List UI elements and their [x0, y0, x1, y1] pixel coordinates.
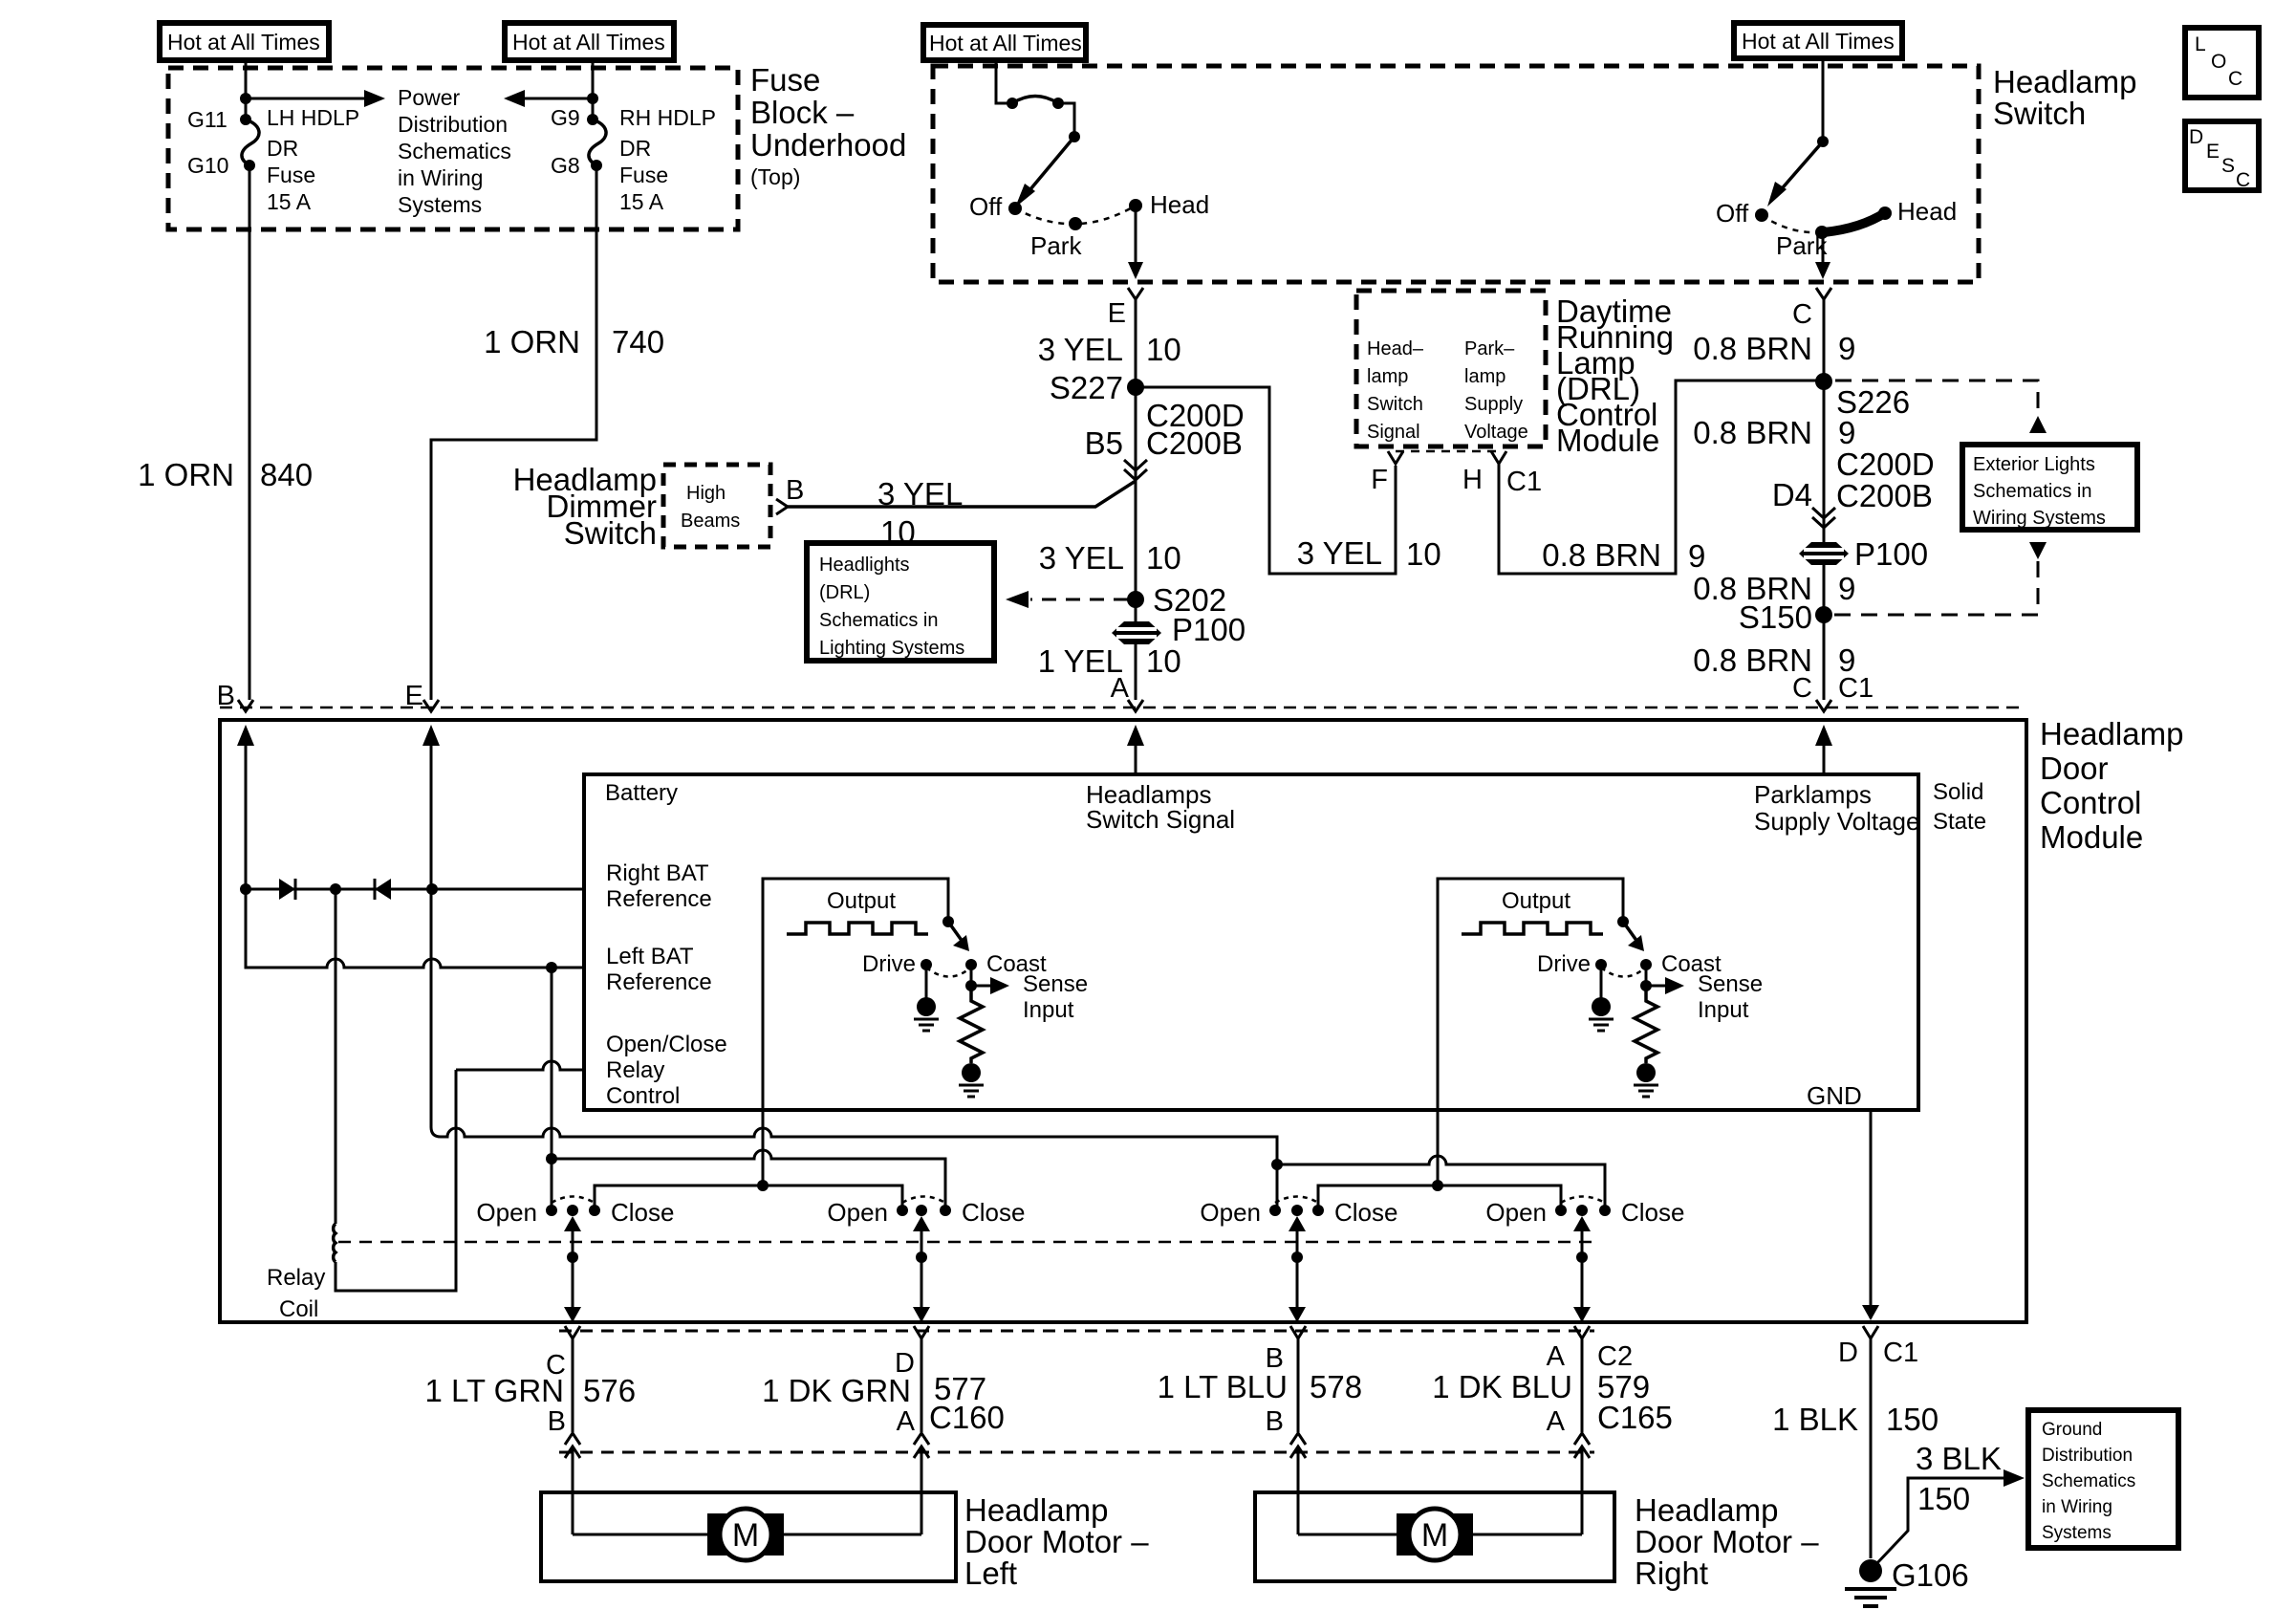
pass-through grommet P100 right — [1799, 542, 1849, 565]
svg-text:Distribution: Distribution — [398, 112, 508, 137]
svg-text:Schematics in: Schematics in — [819, 610, 939, 631]
left switch Head terminal — [1129, 199, 1142, 212]
svg-text:Relay: Relay — [267, 1265, 325, 1291]
svg-text:A: A — [1547, 1341, 1566, 1372]
wire 1 ORN 840 from fuse G10 down to module connector B — [249, 165, 251, 700]
svg-text:Park–: Park– — [1464, 338, 1515, 359]
svg-text:Supply Voltage: Supply Voltage — [1754, 807, 1919, 836]
svg-text:10: 10 — [1406, 536, 1441, 572]
label "0.8 BRN | 9" fourth — [1693, 642, 1855, 678]
diode row wire — [246, 888, 584, 891]
diode D2 — [375, 879, 391, 900]
label High Beams — [681, 483, 740, 532]
svg-text:B: B — [548, 1406, 566, 1437]
splice S150 — [1815, 606, 1832, 623]
bridge1 wire sw1-close to sw2-open — [595, 1186, 902, 1210]
label Head-lamp Switch Signal — [1367, 338, 1424, 443]
output2 wire from driver to bridge2 — [1437, 1110, 1440, 1186]
svg-text:Sense: Sense — [1023, 971, 1088, 997]
motor connector dashed line top — [559, 1330, 1594, 1333]
svg-text:Reference: Reference — [606, 886, 712, 912]
svg-text:0.8 BRN: 0.8 BRN — [1693, 331, 1812, 366]
relay contact set 4 — [1555, 1197, 1611, 1217]
label Open/Close Relay Control — [606, 1032, 727, 1109]
label "LH HDLP DR Fuse 15 A" — [267, 105, 359, 214]
wire relay control row — [456, 1061, 584, 1070]
driver2 drive contact and ground — [1589, 959, 1614, 1031]
svg-text:Supply: Supply — [1464, 394, 1523, 415]
left switch feed wire from Hot box — [996, 60, 1012, 103]
svg-text:Input: Input — [1023, 997, 1074, 1023]
svg-text:Headlamp: Headlamp — [1635, 1492, 1778, 1528]
svg-text:Distribution: Distribution — [2042, 1446, 2133, 1466]
junction dot diode row right — [426, 883, 438, 895]
svg-text:9: 9 — [1838, 331, 1855, 366]
pivot arrow wire sw1 — [564, 1216, 581, 1322]
svg-text:Solid: Solid — [1933, 779, 1983, 805]
label Headlamps Switch Signal — [1086, 780, 1235, 834]
svg-text:Right: Right — [1635, 1556, 1708, 1591]
svg-text:10: 10 — [1146, 643, 1181, 679]
wire 1 ORN 740 from fuse G8 down then left to connector E — [431, 165, 596, 700]
wire H to S226 — [1499, 381, 1824, 574]
left switch Park terminal — [1069, 217, 1082, 230]
svg-text:G8: G8 — [551, 153, 580, 178]
ground distribution reference box — [2028, 1410, 2178, 1548]
label Solid State — [1933, 779, 1986, 835]
fuse LH HDLP DR 15A — [240, 114, 259, 171]
svg-text:Open: Open — [827, 1198, 888, 1227]
svg-text:Block –: Block – — [750, 95, 855, 130]
svg-text:Output: Output — [827, 888, 896, 914]
half connector chevrons B motor — [1290, 1433, 1306, 1534]
svg-text:B: B — [1266, 1406, 1284, 1437]
junction dot diode row left — [240, 883, 251, 895]
driver2 dashed wiper arc — [1601, 968, 1643, 977]
connector fork C interface — [1816, 700, 1831, 711]
half connector chevrons A motor — [1574, 1433, 1590, 1534]
right switch Head terminal — [1878, 207, 1892, 220]
svg-text:B: B — [217, 681, 235, 711]
right motor wiring — [1298, 1534, 1582, 1536]
svg-text:C: C — [1792, 299, 1812, 330]
svg-text:10: 10 — [1146, 332, 1181, 367]
svg-text:L: L — [2195, 33, 2206, 55]
junction dot right feed — [587, 93, 598, 104]
half connector chevrons C motor — [565, 1433, 580, 1534]
left switch arc between contacts — [1012, 97, 1058, 104]
LOC box — [2185, 28, 2259, 98]
svg-text:P100: P100 — [1854, 536, 1928, 572]
svg-text:Schematics in: Schematics in — [1973, 481, 2092, 502]
driver1 resistor ground — [959, 1063, 984, 1097]
svg-text:C: C — [2228, 68, 2242, 90]
svg-text:Hot at All Times: Hot at All Times — [929, 31, 1082, 55]
label Left BAT Reference — [606, 944, 712, 995]
driver1 drive contact and ground — [914, 959, 939, 1031]
svg-text:Door Motor –: Door Motor – — [964, 1524, 1149, 1559]
label "1 ORN | 740" — [484, 324, 664, 359]
relay contact set 3 — [1269, 1197, 1324, 1217]
svg-text:Relay: Relay — [606, 1057, 664, 1083]
svg-text:Switch: Switch — [1367, 394, 1423, 415]
wire row2 from sw1-open riser to sw2 close — [552, 968, 945, 1210]
svg-text:Head: Head — [1897, 197, 1957, 226]
svg-text:Drive: Drive — [862, 951, 916, 977]
svg-text:(Top): (Top) — [750, 164, 800, 189]
svg-text:Ground: Ground — [2042, 1420, 2102, 1440]
connector fork H — [1491, 451, 1506, 464]
svg-text:15 A: 15 A — [267, 189, 312, 214]
driver1 coast contact — [965, 959, 977, 970]
driver2 sense tap — [1640, 965, 1684, 994]
svg-text:Control: Control — [606, 1083, 680, 1109]
label C200D C200B right — [1836, 446, 1935, 513]
svg-text:Wiring Systems: Wiring Systems — [1973, 508, 2106, 529]
svg-text:DR: DR — [267, 136, 298, 161]
svg-text:C165: C165 — [1597, 1400, 1673, 1435]
junction dot row2 start — [546, 1153, 557, 1164]
right switch dashed arc Off to Park — [1762, 215, 1822, 232]
dashed arrow from S202 to headlights box — [1006, 591, 1128, 608]
driver2 wiper arrow — [1623, 922, 1644, 951]
svg-text:G106: G106 — [1892, 1557, 1969, 1593]
svg-text:RH HDLP: RH HDLP — [619, 105, 716, 130]
driver1 square wave — [787, 923, 928, 934]
svg-text:Drive: Drive — [1537, 951, 1591, 977]
svg-text:Headlamp: Headlamp — [1993, 64, 2136, 99]
svg-text:Reference: Reference — [606, 969, 712, 995]
right switch pivot dot — [1817, 136, 1829, 147]
wire 3 BLK 150 branch to ground distribution — [1874, 1469, 2025, 1566]
DRL control module dashed box — [1356, 291, 1546, 446]
connector fork D motor — [914, 1326, 929, 1432]
label box "Hot at All Times" left — [160, 23, 329, 60]
label "0.8 BRN | 9" at H — [1542, 537, 1705, 574]
driver1 resistor — [960, 986, 983, 1063]
right motor box — [1255, 1492, 1614, 1581]
svg-text:A: A — [1111, 673, 1130, 704]
driver2 resistor — [1635, 986, 1657, 1063]
svg-text:LH HDLP: LH HDLP — [267, 105, 359, 130]
svg-text:Parklamps: Parklamps — [1754, 780, 1872, 809]
right switch Park terminal — [1815, 226, 1829, 239]
svg-text:in Wiring: in Wiring — [398, 165, 483, 190]
label Park-lamp Supply Voltage — [1464, 338, 1528, 443]
svg-text:DR: DR — [619, 136, 651, 161]
svg-text:578: 578 — [1310, 1369, 1362, 1404]
label "Headlights (DRL) Schematics in Lighting Systems" — [819, 555, 964, 659]
connector fork E at switch output — [1128, 288, 1143, 700]
svg-text:Lighting Systems: Lighting Systems — [819, 638, 964, 659]
svg-text:Beams: Beams — [681, 511, 740, 532]
svg-text:Off: Off — [969, 192, 1003, 221]
wire branch S227 to DRL F — [1136, 387, 1396, 574]
headlamp switch dashed box — [933, 66, 1979, 282]
svg-text:Door Motor –: Door Motor – — [1635, 1524, 1819, 1559]
svg-text:B: B — [786, 475, 804, 506]
svg-text:Control: Control — [2040, 785, 2141, 820]
svg-text:D: D — [1838, 1338, 1858, 1368]
pivot arrow wire sw4 — [1573, 1216, 1591, 1322]
junction dot row2b start — [1271, 1159, 1283, 1170]
ground G106 — [1845, 1559, 1896, 1606]
svg-text:1 ORN: 1 ORN — [484, 324, 580, 359]
diode D1 — [279, 879, 295, 900]
svg-text:Coil: Coil — [279, 1296, 318, 1322]
svg-text:3 YEL: 3 YEL — [1038, 332, 1123, 367]
svg-text:C1: C1 — [1883, 1338, 1918, 1368]
svg-text:3 YEL: 3 YEL — [1297, 535, 1382, 571]
svg-text:C160: C160 — [929, 1400, 1005, 1435]
in-line connector chevrons C200 left — [1124, 460, 1147, 480]
label "Power Distribution Schematics in Wiring Systems" — [398, 85, 511, 217]
right switch closed contact thick arc Park to Head — [1824, 212, 1886, 232]
label "1 YEL | 10" — [1038, 643, 1181, 679]
label Relay Coil — [267, 1265, 325, 1322]
svg-text:1 DK BLU: 1 DK BLU — [1432, 1369, 1572, 1404]
label box "Hot at All Times" fourth — [1734, 23, 1902, 58]
output1 wire from driver to bridge1 — [762, 1110, 765, 1186]
label "3 YEL | 10" at F — [1297, 535, 1441, 572]
svg-text:Open: Open — [1200, 1198, 1261, 1227]
svg-text:Sense: Sense — [1698, 971, 1763, 997]
driver1 wiper arrow — [948, 922, 969, 951]
wire Park down to box edge with arrow — [1815, 232, 1830, 279]
svg-text:0.8 BRN: 0.8 BRN — [1693, 415, 1812, 450]
svg-text:576: 576 — [583, 1373, 636, 1408]
svg-text:Exterior Lights: Exterior Lights — [1973, 454, 2095, 475]
connector fork C motor — [565, 1326, 580, 1432]
svg-text:Park: Park — [1030, 231, 1082, 260]
svg-text:Close: Close — [611, 1198, 674, 1227]
svg-text:Output: Output — [1502, 888, 1570, 914]
label box "Hot at All Times" second — [505, 23, 674, 60]
svg-text:(DRL): (DRL) — [819, 582, 870, 603]
label "1 DK BLU | 579" — [1432, 1369, 1650, 1404]
relay contact set 1 — [546, 1197, 600, 1217]
label "1 LT GRN | 576" — [425, 1373, 637, 1408]
svg-text:1 LT BLU: 1 LT BLU — [1158, 1369, 1288, 1404]
svg-text:1 BLK: 1 BLK — [1772, 1402, 1858, 1437]
svg-text:Park: Park — [1776, 231, 1828, 260]
connector fork F — [1388, 451, 1403, 464]
svg-text:Off: Off — [1716, 199, 1749, 228]
splice S226 — [1815, 373, 1832, 390]
svg-text:M: M — [732, 1517, 759, 1554]
svg-text:Open: Open — [1485, 1198, 1547, 1227]
dashed reference from exterior lights box to S150 — [1832, 561, 2038, 615]
solid state inner box — [584, 774, 1918, 1110]
connector fork B at dimmer output — [776, 499, 788, 514]
driver2 output frame — [1438, 879, 1623, 1110]
connector fork B motor right — [1290, 1326, 1306, 1432]
svg-text:Head–: Head– — [1367, 338, 1424, 359]
svg-text:1 LT GRN: 1 LT GRN — [425, 1373, 565, 1408]
svg-text:O: O — [2211, 51, 2226, 73]
interface dashed line above module — [220, 707, 2025, 709]
svg-text:G10: G10 — [187, 153, 228, 178]
label "0.8 BRN | 9" second — [1693, 415, 1855, 450]
label Sense Input driver1 — [1023, 971, 1088, 1023]
arrowhead down from exterior lights — [2029, 542, 2047, 559]
label "Headlamp Door Motor - Right" — [1635, 1492, 1819, 1591]
svg-text:E: E — [2206, 141, 2220, 163]
connector fork A motor right — [1574, 1326, 1590, 1432]
arrow to Power Distribution (left pointing) — [504, 90, 593, 107]
left switch contact dot 1 — [1007, 98, 1018, 109]
fuse RH HDLP DR 15A — [587, 114, 606, 171]
svg-text:C200B: C200B — [1836, 478, 1933, 513]
splice S227 — [1127, 379, 1144, 396]
svg-text:D: D — [2189, 126, 2203, 148]
svg-text:Switch: Switch — [1993, 96, 2086, 131]
label "1 LT BLU | 578" — [1158, 1369, 1362, 1404]
svg-text:A: A — [1547, 1406, 1566, 1437]
driver2 square wave — [1462, 923, 1603, 934]
left switch dashed position arc — [1015, 206, 1136, 224]
label "Headlamp Dimmer Switch" — [513, 462, 657, 551]
wire E into module with arrow — [422, 725, 440, 889]
label "Headlamp Door Motor - Left" — [964, 1492, 1149, 1591]
connector fork C at right switch output — [1816, 288, 1831, 700]
label box "Hot at All Times" third — [923, 25, 1086, 60]
svg-text:Voltage: Voltage — [1464, 422, 1528, 443]
svg-text:150: 150 — [1917, 1481, 1970, 1516]
svg-text:Input: Input — [1698, 997, 1749, 1023]
label "1 DK GRN | 577" — [762, 1371, 986, 1408]
svg-text:1 ORN: 1 ORN — [138, 457, 234, 492]
svg-text:Fuse: Fuse — [619, 163, 668, 187]
svg-text:Close: Close — [1621, 1198, 1684, 1227]
svg-text:C200D: C200D — [1836, 446, 1935, 482]
svg-text:Left BAT: Left BAT — [606, 944, 694, 969]
svg-text:Close: Close — [962, 1198, 1025, 1227]
svg-text:Close: Close — [1334, 1198, 1397, 1227]
junction dot bridge1 — [757, 1180, 769, 1191]
svg-text:in Wiring: in Wiring — [2042, 1497, 2112, 1517]
label "Headlamp Switch" — [1993, 64, 2136, 131]
motor connector dashed line bottom — [559, 1451, 1594, 1454]
svg-text:Underhood: Underhood — [750, 127, 906, 163]
svg-text:S150: S150 — [1739, 599, 1812, 635]
svg-text:Fuse: Fuse — [267, 163, 315, 187]
svg-text:C1: C1 — [1838, 673, 1874, 704]
svg-text:840: 840 — [260, 457, 313, 492]
svg-text:Open: Open — [476, 1198, 537, 1227]
bridge2 wire sw3-close to sw4-open — [1318, 1186, 1561, 1210]
left switch wiper arrow to Off — [1015, 137, 1074, 207]
junction dot bridge2 — [1432, 1180, 1443, 1191]
label "Exterior Lights Schematics in Wiring Systems" — [1973, 454, 2106, 529]
label "1 ORN | 840" — [138, 457, 313, 492]
svg-text:150: 150 — [1886, 1402, 1939, 1437]
svg-text:E: E — [1108, 298, 1126, 329]
driver1 switch dot — [942, 916, 954, 927]
svg-text:15 A: 15 A — [619, 189, 664, 214]
svg-text:Headlamp: Headlamp — [964, 1492, 1108, 1528]
svg-text:GND: GND — [1807, 1081, 1862, 1110]
svg-text:Switch: Switch — [564, 515, 657, 551]
dashed link between F and H forks — [1396, 450, 1499, 453]
relay contact set 2 — [897, 1197, 951, 1217]
svg-text:H: H — [1462, 465, 1483, 495]
label "3 YEL | 10" lower riser — [1039, 540, 1181, 576]
svg-text:Systems: Systems — [2042, 1523, 2112, 1543]
left switch pivot dot — [1069, 131, 1080, 142]
svg-text:Headlights: Headlights — [819, 555, 910, 576]
svg-text:B5: B5 — [1085, 425, 1123, 461]
label "Daytime Running Lamp (DRL) Control Module" — [1556, 294, 1674, 458]
junction dot left BAT row — [546, 962, 557, 973]
svg-text:lamp: lamp — [1464, 366, 1505, 387]
svg-text:C1: C1 — [1506, 467, 1542, 497]
fuse block underhood dashed box — [168, 68, 738, 229]
driver2 resistor ground — [1634, 1063, 1658, 1097]
svg-text:Fuse: Fuse — [750, 62, 820, 98]
label "3 YEL | 10" upper — [1038, 332, 1181, 367]
in-line connector chevrons C200 right — [1812, 508, 1835, 528]
svg-text:Hot at All Times: Hot at All Times — [167, 30, 320, 54]
right switch wiper arrow to Off — [1767, 141, 1823, 207]
wire Head down to box edge with arrow — [1128, 206, 1143, 279]
svg-text:Head: Head — [1150, 190, 1209, 219]
svg-text:C200B: C200B — [1146, 425, 1243, 461]
junction dot diode row mid — [330, 883, 341, 895]
svg-text:Left: Left — [964, 1556, 1017, 1591]
headlamp door control module box — [220, 720, 2026, 1322]
dashed reference from S226 to exterior lights box — [1835, 381, 2038, 414]
driver1 dashed wiper arc — [926, 968, 968, 977]
connector fork B interface — [238, 700, 253, 711]
svg-text:E: E — [405, 681, 423, 711]
svg-text:0.8 BRN: 0.8 BRN — [1542, 537, 1661, 573]
svg-text:Switch Signal: Switch Signal — [1086, 805, 1235, 834]
svg-text:G9: G9 — [551, 105, 580, 130]
svg-text:lamp: lamp — [1367, 366, 1408, 387]
wire from second Hot box to fuse G9 — [592, 60, 595, 120]
left switch contact dot 2 — [1052, 98, 1064, 109]
wire C into module with arrow — [1815, 725, 1832, 774]
svg-text:9: 9 — [1688, 538, 1705, 574]
svg-text:M: M — [1421, 1517, 1448, 1554]
svg-text:Signal: Signal — [1367, 422, 1420, 443]
right motor symbol — [1397, 1509, 1473, 1560]
wire row2b to sw4 close — [1277, 1156, 1605, 1210]
svg-text:Module: Module — [2040, 819, 2143, 855]
driver1 sense tap — [965, 965, 1009, 994]
svg-text:Door: Door — [2040, 751, 2109, 786]
svg-text:D4: D4 — [1772, 477, 1812, 512]
right switch Off terminal — [1755, 208, 1768, 222]
svg-text:Schematics: Schematics — [398, 139, 511, 163]
svg-text:Power: Power — [398, 85, 461, 110]
relay coil branch wire — [336, 889, 456, 1291]
label "RH HDLP DR Fuse 15 A" — [619, 105, 716, 214]
pass-through grommet P100 center — [1112, 621, 1161, 644]
svg-text:9: 9 — [1838, 571, 1855, 606]
wire left BAT reference row — [246, 889, 584, 968]
svg-text:C2: C2 — [1597, 1341, 1633, 1372]
svg-text:P100: P100 — [1172, 612, 1245, 647]
label "Ground Distribution Schematics in Wiring Systems" — [2042, 1420, 2135, 1543]
exterior lights reference box — [1962, 445, 2137, 530]
headlights DRL reference box — [807, 543, 994, 661]
svg-text:Systems: Systems — [398, 192, 482, 217]
wire A into module with arrow — [1127, 725, 1144, 774]
left motor symbol — [707, 1509, 784, 1560]
svg-text:Module: Module — [1556, 423, 1659, 458]
